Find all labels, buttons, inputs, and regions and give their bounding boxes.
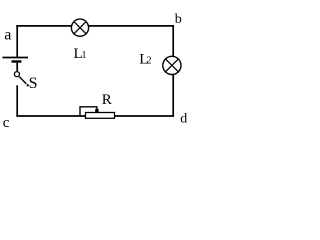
wire bottom-left horizontal (rheostat to c corner) <box>16 115 85 117</box>
label R <box>102 92 112 108</box>
wire left vertical upper (a corner to battery) <box>16 25 18 57</box>
node b <box>175 12 182 27</box>
svg-text:a: a <box>4 26 11 43</box>
node c <box>3 115 10 131</box>
switch S <box>14 72 29 87</box>
svg-text:S: S <box>29 75 38 92</box>
label L2 <box>139 52 151 68</box>
rheostat R <box>80 107 115 119</box>
lamp L1 <box>71 19 88 36</box>
svg-text:2: 2 <box>147 56 152 67</box>
svg-text:d: d <box>180 112 187 127</box>
wire bottom-right horizontal (d corner to rheostat) <box>115 115 175 117</box>
wire battery to switch <box>16 63 18 71</box>
label L1 <box>74 46 87 62</box>
svg-text:1: 1 <box>82 50 87 61</box>
wire top-left horizontal (a to L1) <box>16 25 72 27</box>
svg-text:b: b <box>175 12 182 27</box>
label S <box>29 75 38 92</box>
wire right vertical lower (L2 to d corner) <box>172 75 174 117</box>
svg-text:R: R <box>102 92 112 108</box>
wire right vertical upper (b corner to L2) <box>172 25 174 57</box>
wire switch to c corner <box>16 85 18 117</box>
node d <box>180 112 187 127</box>
battery cell <box>3 58 29 62</box>
wire top-right horizontal (L1 to b corner) <box>88 25 174 27</box>
svg-text:c: c <box>3 115 10 131</box>
lamp L2 <box>163 56 181 74</box>
node a <box>4 26 11 43</box>
